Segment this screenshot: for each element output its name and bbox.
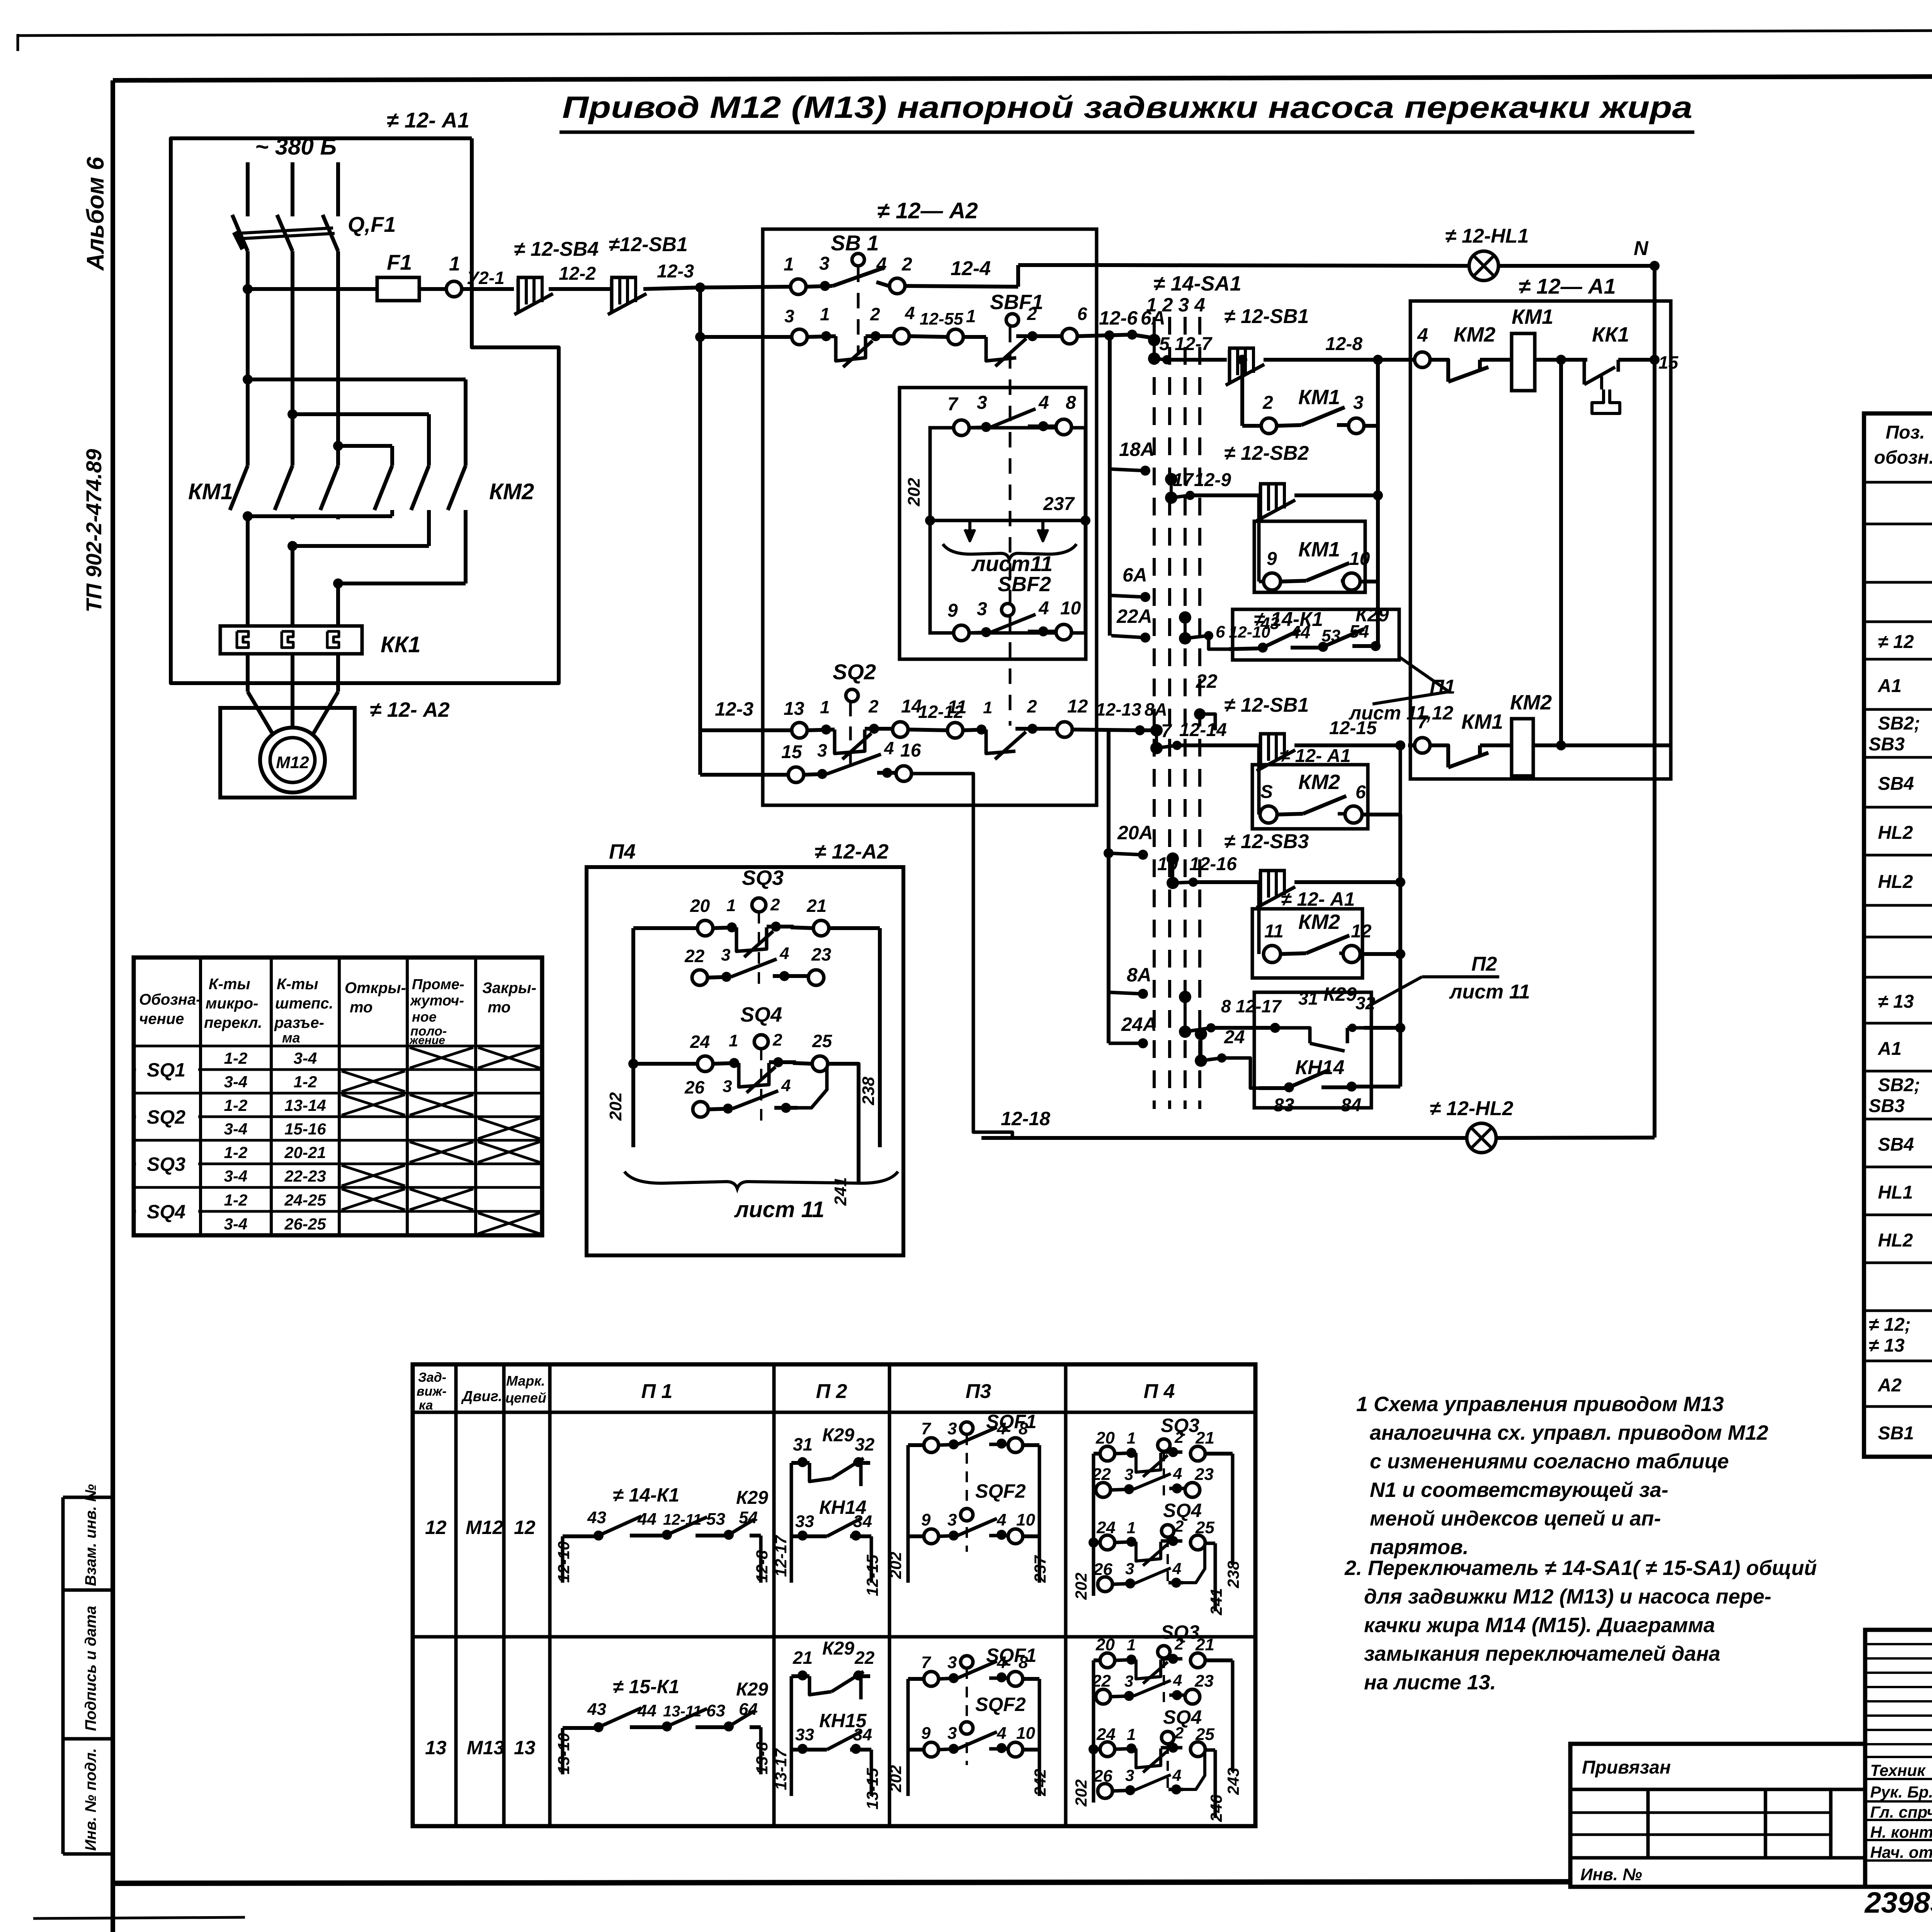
svg-text:перекл.: перекл. bbox=[204, 1014, 262, 1031]
svg-text:4: 4 bbox=[905, 303, 915, 323]
svg-text:6: 6 bbox=[1216, 622, 1225, 641]
wire 202-237 bbox=[925, 515, 935, 526]
svg-text:24: 24 bbox=[1096, 1518, 1116, 1537]
svg-text:12-6: 12-6 bbox=[1099, 307, 1138, 329]
svg-text:SQ2: SQ2 bbox=[833, 660, 876, 684]
svg-text:Гл. спрч.: Гл. спрч. bbox=[1870, 1803, 1932, 1821]
svg-text:3: 3 bbox=[1124, 1672, 1133, 1690]
svg-text:А1: А1 bbox=[1878, 1039, 1901, 1059]
svg-text:31: 31 bbox=[1298, 988, 1318, 1009]
svg-text:1: 1 bbox=[966, 306, 976, 326]
pointer P1 sheet 11 12 bbox=[1399, 657, 1449, 692]
svg-text:54: 54 bbox=[739, 1508, 758, 1527]
svg-text:М12: М12 bbox=[276, 753, 309, 772]
svg-text:246: 246 bbox=[1207, 1794, 1225, 1822]
svg-text:П 2: П 2 bbox=[816, 1380, 847, 1403]
P4 row 22-23 bbox=[1096, 1483, 1111, 1497]
box K29 KN14 bbox=[1254, 992, 1371, 1108]
svg-text:КМ1: КМ1 bbox=[1298, 386, 1340, 409]
control cabinet box #12-A2 bbox=[763, 229, 1097, 805]
breaker QF1 bbox=[232, 215, 248, 251]
svg-text:8: 8 bbox=[1066, 393, 1076, 413]
svg-text:то: то bbox=[488, 999, 510, 1016]
phase wire L3 bbox=[336, 162, 340, 216]
svg-text:2. Переключатель ≠ 14-SА1( ≠: 2. Переключатель ≠ 14-SА1( ≠ 15-SА1) общ… bbox=[1344, 1556, 1817, 1580]
svg-text:10: 10 bbox=[1060, 598, 1081, 619]
svg-text:КМ2: КМ2 bbox=[489, 479, 534, 504]
svg-text:К29: К29 bbox=[822, 1425, 854, 1446]
svg-text:5: 5 bbox=[1159, 334, 1170, 354]
svg-text:53: 53 bbox=[706, 1510, 725, 1529]
node 1 terminal bbox=[446, 281, 462, 297]
svg-text:Зад-: Зад- bbox=[418, 1370, 446, 1385]
svg-text:КМ1: КМ1 bbox=[1298, 538, 1340, 561]
svg-text:Закры-: Закры- bbox=[482, 980, 536, 997]
inner frame bbox=[930, 428, 1085, 633]
svg-text:У2-1: У2-1 bbox=[467, 268, 505, 288]
svg-text:15: 15 bbox=[1658, 352, 1679, 372]
svg-text:2: 2 bbox=[1027, 696, 1037, 716]
svg-text:26: 26 bbox=[684, 1077, 705, 1097]
svg-text:SВ4: SВ4 bbox=[1878, 774, 1914, 794]
svg-text:1: 1 bbox=[784, 254, 794, 275]
wire 12-6 bbox=[1077, 335, 1132, 336]
svg-text:22: 22 bbox=[1092, 1465, 1111, 1484]
svg-text:13: 13 bbox=[514, 1737, 536, 1759]
svg-text:21: 21 bbox=[1195, 1429, 1214, 1447]
svg-text:12-3: 12-3 bbox=[657, 261, 694, 282]
svg-text:12-18: 12-18 bbox=[1001, 1108, 1050, 1129]
svg-text:≠ 12-SB2: ≠ 12-SB2 bbox=[1224, 442, 1309, 464]
N wire bbox=[1097, 265, 1469, 266]
svg-text:22: 22 bbox=[684, 946, 705, 966]
svg-text:КМ2: КМ2 bbox=[1454, 323, 1495, 346]
page top edge line bbox=[18, 29, 1932, 36]
svg-text:2: 2 bbox=[1174, 1635, 1184, 1653]
svg-text:К29: К29 bbox=[736, 1679, 768, 1700]
svg-text:22: 22 bbox=[1196, 670, 1218, 692]
arrow down 2 bbox=[1041, 520, 1044, 540]
svg-text:3: 3 bbox=[819, 253, 830, 274]
svg-text:23985-06: 23985-06 bbox=[1864, 1886, 1932, 1919]
svg-text:12-2: 12-2 bbox=[559, 264, 596, 284]
contact KM1 aux 2-3 bbox=[1237, 355, 1247, 365]
wires to motor bbox=[246, 654, 250, 692]
svg-text:22: 22 bbox=[1092, 1672, 1111, 1690]
svg-text:4: 4 bbox=[1173, 1464, 1182, 1483]
svg-text:Инв. № подл.: Инв. № подл. bbox=[82, 1748, 99, 1851]
svg-text:SВ1: SВ1 bbox=[1878, 1423, 1914, 1444]
svg-text:13: 13 bbox=[425, 1737, 447, 1759]
svg-text:чение: чение bbox=[139, 1010, 184, 1027]
thermal relay KK1 bbox=[220, 626, 362, 654]
svg-text:12-11: 12-11 bbox=[663, 1511, 701, 1528]
svg-text:9: 9 bbox=[1267, 549, 1277, 569]
svg-text:SВ2;: SВ2; bbox=[1878, 1075, 1920, 1095]
svg-text:≠ 12- А2: ≠ 12- А2 bbox=[370, 698, 450, 721]
svg-text:3: 3 bbox=[817, 740, 827, 760]
svg-text:≠12-SB1: ≠12-SB1 bbox=[609, 233, 688, 256]
svg-text:3: 3 bbox=[1353, 393, 1364, 413]
svg-text:≠ 13: ≠ 13 bbox=[1878, 992, 1914, 1012]
svg-text:1: 1 bbox=[983, 698, 992, 717]
left stamp strip bbox=[61, 1497, 65, 1854]
svg-text:64: 64 bbox=[739, 1700, 758, 1719]
svg-text:11: 11 bbox=[947, 697, 967, 718]
box KM2 S-6 bbox=[1252, 765, 1368, 829]
svg-text:18А: 18А bbox=[1119, 439, 1155, 460]
row SQ3 22-23 bbox=[692, 970, 707, 985]
SA1 contact pair g bbox=[1195, 1028, 1207, 1040]
svg-text:парятов.: парятов. bbox=[1370, 1536, 1469, 1559]
svg-text:П3: П3 bbox=[966, 1380, 991, 1403]
svg-text:2: 2 bbox=[1027, 304, 1037, 324]
svg-text:SQ2: SQ2 bbox=[147, 1106, 185, 1128]
svg-text:2: 2 bbox=[901, 254, 912, 275]
svg-text:3: 3 bbox=[1125, 1766, 1134, 1784]
svg-text:ное: ное bbox=[412, 1009, 437, 1025]
SA1 contact pair e bbox=[1167, 852, 1179, 865]
svg-text:SQ3: SQ3 bbox=[742, 866, 784, 889]
svg-text:Техник: Техник bbox=[1870, 1761, 1926, 1779]
svg-text:Обозна-: Обозна- bbox=[139, 991, 201, 1008]
svg-text:20А: 20А bbox=[1117, 822, 1153, 844]
svg-text:3: 3 bbox=[947, 1724, 957, 1743]
svg-text:SВ3: SВ3 bbox=[1869, 734, 1905, 755]
svg-text:8А: 8А bbox=[1145, 699, 1167, 719]
svg-text:20-21: 20-21 bbox=[284, 1143, 326, 1162]
svg-text:9: 9 bbox=[921, 1724, 931, 1743]
svg-text:8: 8 bbox=[1019, 1419, 1028, 1438]
svg-text:21: 21 bbox=[806, 896, 827, 916]
svg-text:63: 63 bbox=[706, 1701, 725, 1720]
SA1 contact pair f bbox=[1179, 991, 1191, 1003]
svg-text:33: 33 bbox=[795, 1725, 814, 1744]
svg-text:12-3: 12-3 bbox=[715, 698, 753, 720]
svg-text:3: 3 bbox=[723, 1077, 732, 1096]
wire to node 1 bbox=[419, 287, 446, 291]
svg-text:N: N bbox=[1634, 237, 1649, 260]
svg-text:4: 4 bbox=[779, 944, 789, 963]
svg-text:4: 4 bbox=[884, 738, 894, 758]
svg-text:25: 25 bbox=[1195, 1725, 1214, 1744]
svg-text:10: 10 bbox=[1016, 1724, 1035, 1743]
svg-text:12-10: 12-10 bbox=[554, 1541, 573, 1583]
svg-text:34: 34 bbox=[853, 1725, 872, 1744]
svg-text:2: 2 bbox=[1174, 1517, 1184, 1535]
svg-text:3-4: 3-4 bbox=[224, 1167, 248, 1185]
svg-text:12: 12 bbox=[1067, 696, 1088, 717]
svg-text:меной индексов цепей и ап-: меной индексов цепей и ап- bbox=[1370, 1507, 1661, 1530]
svg-text:13-15: 13-15 bbox=[863, 1768, 881, 1810]
svg-text:3-4: 3-4 bbox=[224, 1073, 248, 1091]
svg-text:13: 13 bbox=[784, 699, 804, 719]
svg-text:≠ 14-К1: ≠ 14-К1 bbox=[613, 1484, 679, 1506]
svg-text:20: 20 bbox=[1095, 1635, 1115, 1654]
svg-text:≠ 12-SВ3: ≠ 12-SВ3 bbox=[1224, 830, 1309, 853]
svg-text:2: 2 bbox=[770, 895, 780, 914]
svg-text:Рук. Бр.: Рук. Бр. bbox=[1870, 1783, 1932, 1801]
svg-text:26: 26 bbox=[1093, 1767, 1112, 1786]
svg-text:1-2: 1-2 bbox=[294, 1073, 317, 1091]
box #14-K1 K29 bbox=[1233, 609, 1399, 660]
svg-text:13-17: 13-17 bbox=[772, 1748, 790, 1790]
svg-text:SВ4: SВ4 bbox=[1878, 1134, 1914, 1155]
svg-text:2: 2 bbox=[772, 1031, 782, 1049]
node 7 right bbox=[1415, 738, 1430, 753]
svg-text:≠ 12-А2: ≠ 12-А2 bbox=[815, 840, 889, 863]
svg-text:43: 43 bbox=[587, 1508, 606, 1527]
svg-text:≠ 12— А1: ≠ 12— А1 bbox=[1519, 274, 1616, 298]
valve circuits table bbox=[413, 1364, 1255, 1826]
svg-text:Альбом 6: Альбом 6 bbox=[82, 156, 109, 271]
cabinet box #12-A1 bbox=[171, 138, 559, 683]
svg-text:разъе-: разъе- bbox=[274, 1014, 324, 1031]
svg-text:П4: П4 bbox=[609, 840, 636, 863]
svg-text:12-4: 12-4 bbox=[951, 257, 991, 280]
SA1 contact pair c bbox=[1179, 611, 1191, 624]
wire 12-55 bbox=[909, 336, 947, 337]
svg-text:6: 6 bbox=[1077, 304, 1087, 324]
svg-text:12-8: 12-8 bbox=[753, 1550, 771, 1583]
svg-text:К-ты: К-ты bbox=[277, 976, 318, 993]
svg-text:44: 44 bbox=[1290, 622, 1310, 642]
svg-text:12: 12 bbox=[1351, 921, 1372, 942]
svg-text:84: 84 bbox=[1341, 1095, 1361, 1116]
svg-text:242: 242 bbox=[1031, 1769, 1049, 1796]
svg-text:9: 9 bbox=[947, 600, 958, 621]
wire U2-1 bbox=[462, 287, 514, 291]
svg-text:12-15: 12-15 bbox=[1329, 718, 1377, 738]
svg-text:КМ1: КМ1 bbox=[1512, 305, 1553, 328]
svg-text:НL2: НL2 bbox=[1878, 872, 1913, 892]
svg-text:Н. контр.: Н. контр. bbox=[1870, 1823, 1932, 1841]
svg-text:4: 4 bbox=[1038, 393, 1049, 413]
svg-text:43: 43 bbox=[587, 1700, 606, 1719]
remote unit box sheet 11 bbox=[900, 388, 1086, 659]
svg-text:качки жира М14 (М15). Диагр: качки жира М14 (М15). Диаграмма bbox=[1364, 1614, 1715, 1637]
svg-text:4: 4 bbox=[997, 1724, 1006, 1743]
wire 12-3 junction bbox=[695, 282, 705, 293]
svg-text:1-2: 1-2 bbox=[224, 1143, 248, 1162]
svg-text:П 1: П 1 bbox=[641, 1380, 673, 1403]
svg-text:А2: А2 bbox=[1878, 1375, 1902, 1396]
P4 row 26-3-4 bbox=[1098, 1784, 1112, 1798]
svg-text:12-16: 12-16 bbox=[1189, 854, 1237, 874]
svg-text:SQF2: SQF2 bbox=[975, 1480, 1026, 1502]
svg-text:12-9: 12-9 bbox=[1194, 470, 1231, 490]
svg-text:4: 4 bbox=[876, 254, 887, 275]
wire inner vertical bbox=[1556, 355, 1566, 365]
svg-text:54: 54 bbox=[1349, 621, 1369, 641]
svg-text:1: 1 bbox=[1127, 1519, 1136, 1537]
svg-text:Марк.: Марк. bbox=[506, 1373, 545, 1389]
row 7 12-14 SB1 bbox=[1156, 745, 1177, 748]
svg-text:1: 1 bbox=[1127, 1636, 1136, 1654]
SA1 contact pair d bbox=[1150, 724, 1163, 736]
SA1 contact pair a bbox=[1148, 334, 1160, 346]
svg-text:КК1: КК1 bbox=[1592, 323, 1629, 346]
svg-text:обозн.: обозн. bbox=[1874, 447, 1932, 468]
svg-text:22А: 22А bbox=[1116, 605, 1152, 627]
signature grid bbox=[1865, 1630, 1932, 1887]
svg-text:SQ4: SQ4 bbox=[147, 1201, 185, 1223]
svg-text:12-8: 12-8 bbox=[1325, 334, 1362, 354]
svg-text:≠ 12-SВ1: ≠ 12-SВ1 bbox=[1224, 305, 1309, 328]
svg-text:21: 21 bbox=[793, 1648, 813, 1668]
svg-text:КМ1: КМ1 bbox=[1461, 710, 1503, 733]
svg-text:4: 4 bbox=[997, 1510, 1006, 1529]
box KM2 11-12 bbox=[1252, 909, 1362, 978]
svg-text:SQ3: SQ3 bbox=[147, 1153, 185, 1175]
svg-text:П2: П2 bbox=[1471, 953, 1497, 975]
svg-text:≠ 12— А2: ≠ 12— А2 bbox=[877, 198, 978, 223]
svg-text:202: 202 bbox=[905, 478, 923, 507]
svg-text:24-25: 24-25 bbox=[284, 1191, 326, 1209]
node 4 bbox=[1415, 352, 1430, 367]
svg-text:3-4: 3-4 bbox=[224, 1215, 248, 1233]
svg-text:КМ2: КМ2 bbox=[1298, 770, 1340, 794]
phase wire L1 bbox=[246, 162, 250, 216]
svg-text:4: 4 bbox=[997, 1653, 1006, 1672]
svg-text:SQ4: SQ4 bbox=[740, 1003, 782, 1026]
svg-text:243: 243 bbox=[1224, 1768, 1242, 1795]
svg-text:КМ1: КМ1 bbox=[188, 479, 233, 504]
svg-text:1: 1 bbox=[726, 896, 736, 915]
svg-text:241: 241 bbox=[1207, 1588, 1225, 1616]
svg-text:виж-: виж- bbox=[417, 1384, 447, 1399]
svg-text:4: 4 bbox=[1172, 1560, 1181, 1578]
svg-text:НL2: НL2 bbox=[1878, 823, 1913, 843]
svg-text:3: 3 bbox=[1125, 1560, 1134, 1578]
svg-text:12-13: 12-13 bbox=[1096, 699, 1141, 719]
svg-text:20: 20 bbox=[690, 896, 710, 916]
wire riser to N bbox=[1016, 265, 1020, 287]
pointer P2 sheet 11 bbox=[1371, 977, 1422, 1005]
P4 row 26-3-4 bbox=[1098, 1577, 1112, 1592]
svg-text:2: 2 bbox=[868, 696, 879, 716]
svg-text:замыкания переключателей дан: замыкания переключателей дана bbox=[1364, 1642, 1720, 1665]
svg-text:≠ 12- А1: ≠ 12- А1 bbox=[1280, 746, 1351, 766]
svg-text:3: 3 bbox=[947, 1419, 957, 1438]
svg-text:Нач. отд.: Нач. отд. bbox=[1870, 1843, 1932, 1861]
svg-text:25: 25 bbox=[812, 1031, 833, 1051]
svg-text:20: 20 bbox=[1095, 1429, 1115, 1447]
junction to SA1 dashes bbox=[1132, 335, 1154, 338]
drive box #12-A2 bbox=[220, 708, 355, 798]
svg-text:К29: К29 bbox=[1323, 983, 1357, 1005]
svg-text:238: 238 bbox=[859, 1077, 878, 1105]
svg-text:12-15: 12-15 bbox=[863, 1554, 881, 1596]
parts list table bbox=[1864, 413, 1932, 1457]
svg-text:НL1: НL1 bbox=[1878, 1182, 1913, 1203]
wire 12-4 bbox=[905, 286, 1018, 287]
svg-text:22-23: 22-23 bbox=[284, 1167, 326, 1185]
svg-text:3: 3 bbox=[721, 946, 730, 964]
left vertical lower bbox=[1107, 730, 1111, 1017]
svg-text:1: 1 bbox=[1127, 1725, 1136, 1743]
arrow down 1 bbox=[968, 520, 971, 540]
svg-text:12-17: 12-17 bbox=[1236, 996, 1282, 1016]
svg-text:1: 1 bbox=[1127, 1429, 1136, 1447]
svg-text:24: 24 bbox=[1096, 1725, 1116, 1744]
svg-text:13-8: 13-8 bbox=[753, 1742, 771, 1774]
svg-text:КМ2: КМ2 bbox=[1298, 910, 1340, 934]
switch SQ1 lower contact bbox=[792, 329, 807, 345]
svg-text:КМ2: КМ2 bbox=[1510, 691, 1552, 714]
wire from 16 down to 12-18 bbox=[912, 774, 1012, 1138]
row 15-16 bbox=[698, 730, 702, 775]
svg-text:8А: 8А bbox=[1127, 964, 1151, 986]
svg-text:ТП 902-2-474.89: ТП 902-2-474.89 bbox=[82, 449, 106, 612]
brace list 11 bbox=[624, 1172, 898, 1189]
svg-text:Проме-: Проме- bbox=[412, 976, 464, 993]
svg-text:24: 24 bbox=[1224, 1027, 1245, 1048]
svg-text:N1 и соответствующей за-: N1 и соответствующей за- bbox=[1370, 1478, 1668, 1502]
svg-text:11: 11 bbox=[1264, 921, 1284, 942]
svg-text:Подпись и дата: Подпись и дата bbox=[82, 1606, 99, 1731]
microswitch table bbox=[134, 957, 542, 1235]
svg-text:SВ2;: SВ2; bbox=[1878, 713, 1920, 734]
svg-text:≠ 12-НL2: ≠ 12-НL2 bbox=[1430, 1097, 1513, 1120]
svg-text:237: 237 bbox=[1043, 494, 1075, 514]
main frame bbox=[113, 75, 1932, 80]
svg-text:7: 7 bbox=[921, 1653, 932, 1672]
crossover wires bottom bbox=[243, 511, 253, 521]
svg-text:≠ 12-SB4: ≠ 12-SB4 bbox=[514, 238, 599, 260]
svg-text:202: 202 bbox=[606, 1092, 625, 1121]
svg-text:≠ 14-SА1: ≠ 14-SА1 bbox=[1153, 272, 1242, 295]
svg-text:Инв. №: Инв. № bbox=[1580, 1865, 1642, 1884]
svg-text:33: 33 bbox=[795, 1512, 814, 1531]
svg-text:17: 17 bbox=[1173, 470, 1194, 490]
svg-text:1: 1 bbox=[729, 1031, 738, 1050]
svg-text:19: 19 bbox=[1157, 854, 1178, 874]
contact row 7-8 bbox=[954, 420, 969, 435]
svg-text:44: 44 bbox=[637, 1510, 656, 1529]
svg-text:лист 11: лист 11 bbox=[1449, 981, 1530, 1003]
svg-text:4: 4 bbox=[1038, 598, 1049, 619]
svg-text:К29: К29 bbox=[736, 1488, 768, 1508]
svg-text:К29: К29 bbox=[822, 1638, 854, 1659]
svg-text:12: 12 bbox=[514, 1517, 536, 1538]
wire 12-3 bbox=[643, 287, 700, 289]
svg-text:10: 10 bbox=[1016, 1510, 1035, 1529]
svg-text:то: то bbox=[350, 999, 372, 1016]
svg-text:237: 237 bbox=[1031, 1555, 1049, 1583]
svg-text:12-14: 12-14 bbox=[1179, 720, 1227, 740]
svg-text:12-17: 12-17 bbox=[772, 1535, 790, 1577]
brace sheet11 bbox=[943, 544, 1077, 560]
svg-text:К-ты: К-ты bbox=[209, 976, 250, 993]
svg-text:4: 4 bbox=[1417, 324, 1428, 346]
svg-text:24А: 24А bbox=[1121, 1014, 1157, 1035]
svg-text:3: 3 bbox=[977, 599, 987, 619]
svg-text:SB 1: SB 1 bbox=[831, 231, 879, 255]
svg-text:ма: ма bbox=[282, 1030, 300, 1046]
svg-text:8: 8 bbox=[1019, 1653, 1028, 1672]
svg-text:26-25: 26-25 bbox=[284, 1215, 326, 1233]
svg-text:SQ1: SQ1 bbox=[147, 1059, 185, 1081]
svg-text:лист 11: лист 11 bbox=[734, 1197, 825, 1222]
svg-text:Поз.: Поз. bbox=[1886, 422, 1925, 443]
svg-text:Откры-: Откры- bbox=[345, 980, 406, 997]
svg-text:для задвижки М12 (М13) и нас: для задвижки М12 (М13) и насоса пере- bbox=[1364, 1585, 1771, 1608]
svg-text:1: 1 bbox=[449, 253, 460, 275]
svg-text:SQF2: SQF2 bbox=[975, 1694, 1026, 1715]
right bus vertical bbox=[1653, 266, 1656, 1138]
svg-text:43: 43 bbox=[1260, 614, 1279, 633]
